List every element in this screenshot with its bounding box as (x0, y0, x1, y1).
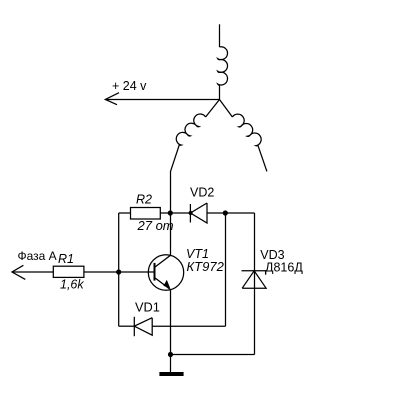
svg-text:КТ972: КТ972 (187, 259, 225, 274)
svg-text:+ 24 v: + 24 v (112, 79, 147, 93)
svg-text:Д816Д: Д816Д (265, 260, 303, 274)
svg-text:Фаза A: Фаза A (18, 249, 57, 263)
svg-text:27 om: 27 om (137, 218, 174, 233)
svg-text:VD1: VD1 (135, 299, 160, 314)
svg-text:VD2: VD2 (190, 185, 214, 199)
svg-text:R2: R2 (136, 193, 152, 207)
svg-text:1,6k: 1,6k (60, 278, 84, 292)
svg-text:R1: R1 (58, 252, 74, 266)
